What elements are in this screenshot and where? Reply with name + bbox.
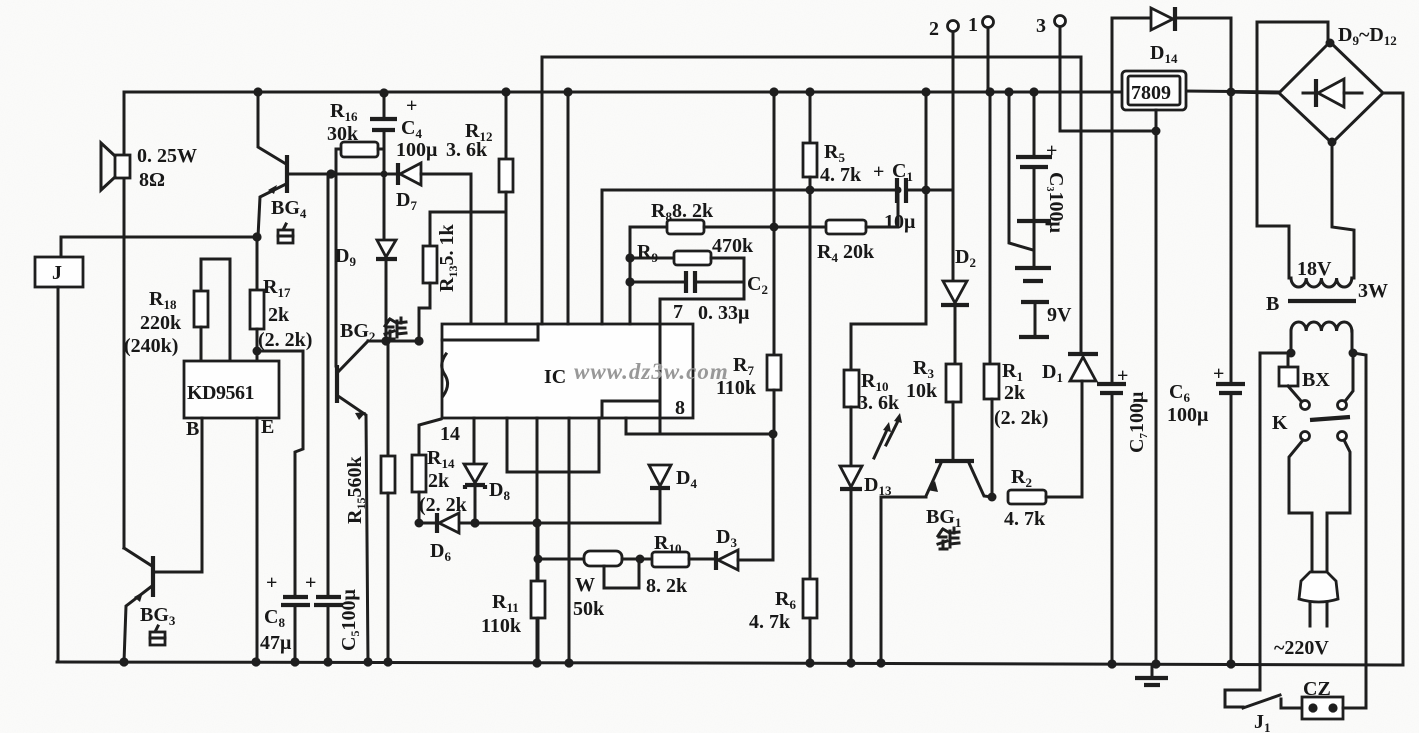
node wiper tie: [636, 555, 645, 564]
svg-text:2k: 2k: [1004, 382, 1026, 404]
wire rail y131: [1060, 130, 1156, 133]
node pin on top bus: [563, 87, 572, 96]
svg-text:2k: 2k: [428, 470, 450, 492]
ground: [1135, 659, 1168, 685]
node x926 y190: [922, 186, 931, 195]
svg-text:R135. 1k: R135. 1k: [436, 224, 460, 292]
switch J1: [1243, 695, 1302, 733]
terminal 3: [1036, 15, 1066, 131]
node C7 on bus: [1107, 659, 1116, 668]
svg-text:+: +: [305, 572, 316, 594]
node R1 top on bus: [985, 87, 994, 96]
node BG4 base / D7: [326, 169, 335, 178]
wire bus to C1 node x926: [925, 92, 928, 324]
svg-text:100μ: 100μ: [1167, 404, 1209, 426]
svg-text:IC: IC: [544, 366, 566, 388]
wire KD9561 pin B to BG3 base: [155, 418, 202, 572]
node R15 on bus: [383, 657, 392, 666]
node x537 y523: [532, 518, 541, 527]
node C4 / D7 crossing: [381, 171, 388, 178]
svg-text:B: B: [186, 418, 199, 440]
svg-text:3: 3: [1036, 15, 1046, 37]
svg-text:(2. 2k): (2. 2k): [258, 329, 312, 351]
diode D7: [330, 163, 471, 324]
svg-text:1: 1: [968, 14, 978, 36]
fuse BX: [1279, 353, 1330, 401]
diode D2: [941, 190, 976, 364]
wire second top bus y57: [542, 56, 1081, 59]
svg-text:8: 8: [675, 397, 685, 419]
node pin x569 bus: [564, 658, 573, 667]
wire secondary left lead down: [1260, 353, 1291, 690]
svg-text:0. 33μ: 0. 33μ: [698, 302, 750, 324]
node pin8 rail / R7 / D3: [769, 430, 778, 439]
svg-text:W: W: [575, 574, 595, 596]
svg-text:3. 6k: 3. 6k: [446, 139, 488, 161]
node C2 left: [625, 277, 634, 286]
node D13 on bus: [846, 658, 855, 667]
svg-text:3W: 3W: [1358, 280, 1388, 302]
node 7809 gnd y131: [1152, 127, 1161, 136]
mains plug: [1274, 572, 1338, 659]
svg-text:~220V: ~220V: [1274, 637, 1329, 659]
wire bridge left vertical down: [1257, 22, 1289, 278]
wire IC pin to second top bus: [541, 57, 544, 324]
wire IC pin x630 R8 block rail: [629, 227, 632, 324]
svg-text:8Ω: 8Ω: [139, 169, 165, 191]
resistor R16 30k: [327, 100, 384, 366]
node J line / BG4 emitter: [252, 232, 261, 241]
transistor BG3: [124, 548, 176, 662]
svg-text:+: +: [1046, 140, 1057, 162]
capacitor C1 10u: [873, 160, 953, 233]
svg-text:KD9561: KD9561: [187, 382, 254, 404]
capacitor C7 100u: [1097, 18, 1150, 664]
svg-text:10μ: 10μ: [884, 211, 916, 233]
transformer secondary: [1287, 322, 1358, 358]
diode D6: [430, 513, 459, 564]
diode D9: [335, 240, 397, 341]
svg-text:50k: 50k: [573, 598, 605, 620]
svg-text:CZ: CZ: [1303, 678, 1331, 700]
svg-text:220k: 220k: [140, 312, 182, 334]
wire J1 hook below bus: [1225, 690, 1260, 707]
svg-text:110k: 110k: [716, 377, 757, 399]
resistor R5 4.7k: [803, 92, 862, 190]
svg-text:9V: 9V: [1047, 304, 1072, 326]
resistor R3 10k: [906, 357, 961, 459]
svg-text:+: +: [406, 95, 417, 117]
node C3 top on bus: [1029, 87, 1038, 96]
connector J: [35, 237, 83, 662]
node R8 rail crossing: [770, 223, 779, 232]
resistor R14 2k(2.2k): [412, 419, 468, 523]
resistor R8 8.2k: [630, 200, 826, 234]
wire W rail y559: [538, 558, 584, 561]
IC KD9561: [184, 361, 279, 440]
wire IC pin x537 to bus: [536, 418, 539, 663]
wire R17 junction to C8 top: [257, 351, 303, 596]
node BG1 right leg / R1: [988, 493, 997, 502]
svg-text:470k: 470k: [712, 235, 754, 257]
svg-text:110k: 110k: [481, 615, 522, 637]
symbol lv (green) at BG1: [938, 528, 959, 549]
socket CZ: [1302, 664, 1366, 719]
svg-text:BX: BX: [1302, 369, 1330, 391]
capacitor C8 47u: [260, 572, 310, 662]
resistor R13 5.1k: [419, 212, 460, 341]
svg-text:7: 7: [673, 301, 683, 323]
svg-text:30k: 30k: [327, 123, 359, 145]
wire bridge bottom to transformer: [1332, 143, 1354, 278]
wire KD9561 pin E down to bus: [256, 418, 259, 662]
wire BG2 collector node y341: [368, 340, 419, 343]
wire K lower-right to plug: [1327, 440, 1350, 573]
transformer core: [1288, 299, 1356, 303]
svg-text:(240k): (240k): [124, 335, 178, 357]
svg-text:10k: 10k: [906, 380, 938, 402]
node D14 right on bus: [1227, 88, 1236, 97]
svg-text:14: 14: [440, 423, 460, 445]
svg-text:3. 6k: 3. 6k: [858, 392, 900, 414]
capacitor C4 100u: [370, 92, 438, 240]
node R7 top on bus: [769, 87, 778, 96]
wire left rail from top bus to BG3: [123, 92, 126, 548]
svg-text:0. 25W: 0. 25W: [137, 145, 197, 167]
diode D4: [649, 465, 697, 523]
node x1009 bus: [1004, 87, 1013, 96]
svg-text:2k: 2k: [268, 304, 290, 326]
svg-text:4. 7k: 4. 7k: [749, 611, 791, 633]
capacitor C5 100u: [305, 572, 362, 662]
svg-text:R4 20k: R4 20k: [817, 241, 875, 265]
bridge rectifier D9~D12: [1230, 22, 1403, 665]
svg-text:+: +: [873, 161, 884, 183]
wire K lower-left to plug: [1289, 440, 1312, 573]
diode D8: [464, 464, 510, 523]
svg-text:+: +: [266, 572, 277, 594]
transistor BG2: [337, 320, 375, 662]
relay contacts K: [1272, 353, 1353, 441]
node BG2 emitter on bus: [363, 657, 372, 666]
transistor BG1: [881, 459, 992, 663]
regulator 7809: [1122, 71, 1186, 110]
diode D3: [716, 434, 773, 570]
resistor R10 8.2k: [646, 532, 715, 597]
resistor R18 220k(240k): [124, 259, 230, 361]
svg-text:R88. 2k: R88. 2k: [651, 200, 714, 224]
wire node y212 R13/R12: [430, 211, 506, 214]
wire node line y523: [419, 522, 660, 525]
wire secondary right lead down: [1353, 353, 1366, 664]
wire bottom ground bus: [57, 662, 1403, 665]
capacitor C6 100u: [1167, 18, 1245, 664]
node E pin on bus: [251, 657, 260, 666]
diode D1: [1042, 57, 1098, 497]
svg-text:4. 7k: 4. 7k: [820, 164, 862, 186]
wire bus to battery jog: [1009, 93, 1033, 250]
resistor R4 20k: [817, 190, 898, 265]
resistor R12 3.6k: [446, 92, 513, 324]
node R5 top on bus: [805, 87, 814, 96]
node x926 bus: [921, 87, 930, 96]
symbol bai (white) at BG3: [150, 626, 165, 645]
wire IC pin to top bus: [567, 92, 570, 324]
wire IC pins to y472 link: [507, 418, 599, 472]
svg-text:B: B: [1266, 293, 1279, 315]
svg-text:C5100μ: C5100μ: [338, 589, 362, 651]
svg-text:J: J: [52, 262, 62, 284]
wire x926 to R10b: [851, 324, 926, 370]
wire top bus y92: [124, 91, 1124, 94]
wire top bus right of 7809: [1184, 91, 1279, 92]
potentiometer W 50k: [573, 551, 652, 620]
svg-text:+: +: [1117, 365, 1128, 387]
wire BG4 base node down to C5 cap: [327, 174, 330, 596]
resistor R15 560k: [344, 341, 395, 662]
node R15 top: [386, 339, 390, 343]
symbol bai (white) at BG4: [278, 224, 293, 243]
node C5 on bus: [323, 657, 332, 666]
node R17 bottom junction: [253, 347, 262, 356]
terminal 1: [968, 14, 994, 93]
LED D13: [840, 413, 902, 663]
wire rail y190: [602, 189, 895, 192]
capacitor C2 0.33u: [630, 258, 768, 324]
svg-text:C3100μ: C3100μ: [1044, 172, 1067, 233]
wire IC pin14 stub: [473, 418, 476, 464]
resistor R11 110k: [481, 523, 545, 663]
node BG1 emitter on bus: [876, 658, 885, 667]
node left rail on bus: [119, 657, 128, 666]
svg-text:2: 2: [929, 18, 939, 40]
node R6 on bus: [805, 658, 814, 667]
resistor R9 470k: [630, 235, 754, 265]
resistor R17 2k(2.2k): [250, 237, 312, 361]
svg-text:C7100μ: C7100μ: [1126, 391, 1150, 453]
node R4 riser y190: [895, 187, 902, 194]
node R12 top on bus: [501, 87, 510, 96]
svg-text:7809: 7809: [1131, 82, 1171, 104]
svg-text:18V: 18V: [1297, 258, 1332, 280]
node D9 bottom: [381, 336, 390, 345]
node R9 left: [625, 253, 634, 262]
svg-text:4. 7k: 4. 7k: [1004, 508, 1046, 530]
symbol lv (green) at BG2: [385, 318, 406, 339]
svg-text:100μ: 100μ: [396, 139, 438, 161]
node BG4 collector on bus: [253, 87, 262, 96]
node pin x537 bus: [532, 658, 541, 667]
resistor R10b 3.6k: [844, 370, 900, 466]
node R13 bottom: [414, 336, 423, 345]
svg-text:+: +: [1213, 363, 1224, 385]
svg-text:(2. 2k): (2. 2k): [994, 407, 1048, 429]
wire J line y237: [61, 236, 258, 239]
speaker 0.25W 8ohm: [101, 143, 197, 191]
node C6 on bus: [1226, 659, 1235, 668]
wire IC pin x601 up to y190 rail: [601, 190, 604, 324]
node R5 bottom y190: [806, 186, 815, 195]
node C4 on bus: [379, 88, 388, 97]
resistor R7 110k: [716, 92, 781, 434]
node R14/D6: [415, 519, 424, 528]
transistor BG4: [258, 92, 330, 237]
resistor R1 2k(2.2k): [984, 93, 1048, 497]
svg-text:47μ: 47μ: [260, 632, 292, 654]
node C8 on bus: [290, 657, 299, 666]
svg-text:E: E: [261, 416, 274, 438]
op-amp IC box: [440, 299, 773, 445]
svg-text:www.dz3w.com: www.dz3w.com: [574, 359, 729, 384]
svg-text:8. 2k: 8. 2k: [646, 575, 688, 597]
diode D14: [1112, 7, 1231, 66]
battery 9V: [1015, 222, 1072, 337]
terminal 2: [929, 18, 959, 190]
node x538 y559: [534, 555, 543, 564]
capacitor C3 100u: [1016, 93, 1067, 233]
svg-text:K: K: [1272, 412, 1288, 434]
wire 7809 gnd pin down: [1155, 110, 1158, 664]
resistor R2 4.7k: [1004, 466, 1082, 530]
node D8 bottom: [470, 518, 479, 527]
wire IC pin x569 to bus: [568, 418, 571, 663]
svg-text:R15560k: R15560k: [344, 456, 368, 524]
transformer B primary 18V: [1291, 258, 1388, 302]
resistor R6 4.7k: [749, 190, 817, 663]
